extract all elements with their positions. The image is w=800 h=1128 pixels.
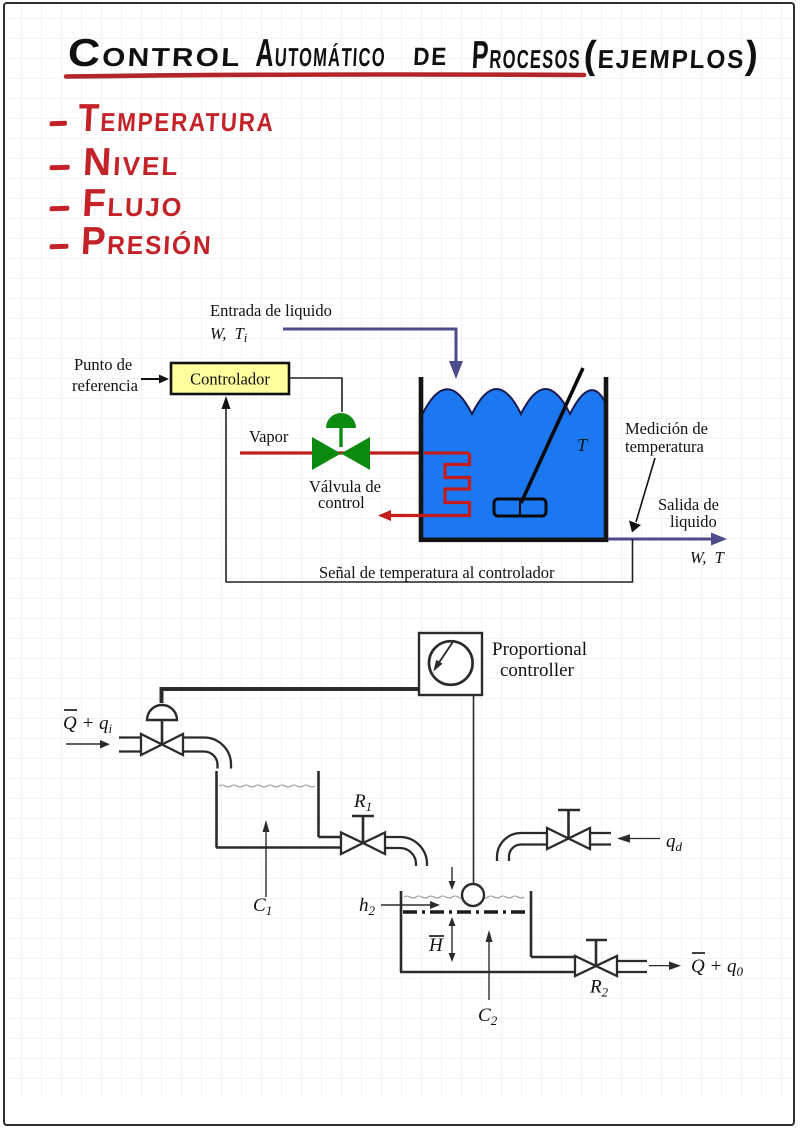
svg-text:Q + q0: Q + q0 [691, 956, 744, 979]
list item Flujo [49, 182, 185, 226]
label C1 with arrow [253, 820, 272, 918]
inlet pipe bend into tank1 [183, 738, 231, 769]
label Punto de referencia [72, 355, 139, 395]
svg-text:Señal de temperatura al contro: Señal de temperatura al controlador [319, 563, 555, 582]
label Entrada de liquido [210, 301, 332, 345]
svg-text:qd: qd [666, 831, 683, 854]
svg-text:liquido: liquido [670, 512, 717, 531]
label Válvula de control [309, 477, 381, 512]
steam line over liquid (red) [424, 451, 469, 454]
label h2 with arrow [359, 895, 440, 918]
svg-text:W, T: W, T [690, 548, 726, 567]
label Qbar + qi [63, 710, 113, 736]
svg-text:Punto de: Punto de [74, 355, 132, 374]
inlet valve actuator dome [147, 705, 177, 744]
svg-text:h2: h2 [359, 895, 376, 918]
tank C1 water line [219, 785, 315, 787]
inlet pipe left [119, 738, 141, 752]
stirrer shaft [521, 368, 583, 503]
label R2 [589, 977, 609, 1000]
tank C2 walls [400, 891, 575, 972]
svg-text:Vapor: Vapor [249, 427, 289, 446]
title: Control Automático de Procesos (ejemplos) [67, 32, 243, 76]
svg-text:Q + qi: Q + qi [63, 713, 113, 736]
label Qbar + q0 [691, 953, 744, 979]
controller box [171, 363, 289, 394]
tank liquid (blue with wavy surface) [422, 389, 606, 538]
valve R1 [341, 816, 385, 854]
thick signal line controller to inlet valve [162, 689, 420, 703]
valve R2 [575, 940, 617, 976]
label W, T outlet [690, 548, 726, 567]
proportional controller box [419, 633, 482, 695]
small arrow onto water [449, 867, 456, 890]
wire controller to float [473, 695, 475, 884]
svg-text:Entrada de liquido: Entrada de liquido [210, 301, 332, 320]
setpoint arrow into controller [141, 375, 169, 384]
steam line (red) through valve into coil [240, 451, 469, 454]
label C2 with arrow [478, 930, 498, 1028]
svg-text:R2: R2 [589, 977, 609, 1000]
svg-text:C1: C1 [253, 895, 272, 918]
svg-text:controller: controller [500, 660, 575, 681]
list item Temperatura [49, 97, 276, 141]
svg-text:Proportional: Proportional [492, 639, 587, 660]
svg-text:Medición de: Medición de [625, 419, 708, 438]
label Proportional controller [492, 639, 587, 681]
inlet control valve bowtie [141, 734, 183, 755]
svg-text:H: H [428, 935, 444, 956]
label T inside tank [577, 435, 589, 455]
inlet flow arrow [66, 740, 110, 749]
svg-text:C2: C2 [478, 1005, 498, 1028]
svg-text:temperatura: temperatura [625, 437, 704, 456]
inlet liquid line (navy) into tank [283, 329, 463, 379]
label Hbar with double arrow [428, 917, 456, 962]
dash-dot mean level line [403, 910, 530, 913]
disturbance valve qd [547, 810, 590, 849]
label R1 [353, 791, 372, 814]
pipe bend R1 into tank2 [385, 837, 427, 866]
label Señal de temperatura al controlador [319, 563, 555, 582]
red underline under title [0, 0, 800, 100]
float on water [462, 884, 484, 906]
svg-text:Controlador: Controlador [190, 370, 270, 389]
tank C1 walls [216, 771, 341, 848]
svg-text:control: control [318, 493, 365, 512]
feedback signal wire [222, 396, 633, 582]
measurement arrow [629, 458, 655, 533]
list item Nivel [49, 141, 181, 185]
stirrer paddle [494, 499, 546, 516]
tank C2 water line [404, 896, 524, 898]
label Medición de temperatura [625, 419, 708, 456]
label Salida de liquido [658, 495, 719, 531]
list item Presión [49, 220, 214, 264]
control valve (green) [312, 413, 370, 470]
tank walls [421, 377, 606, 540]
svg-text:R1: R1 [353, 791, 372, 814]
outlet liquid line (navy) [608, 533, 727, 546]
heating coil (red) inside tank [378, 453, 470, 521]
outlet pipe right of R2 + arrow [617, 961, 681, 972]
qd pipe bend into tank2 [497, 833, 547, 861]
label Vapor [249, 427, 289, 446]
wire controller to valve actuator [289, 378, 342, 412]
svg-text:W, Ti: W, Ti [210, 324, 248, 345]
svg-text:referencia: referencia [72, 376, 139, 395]
qd pipe right + arrow [590, 831, 683, 854]
